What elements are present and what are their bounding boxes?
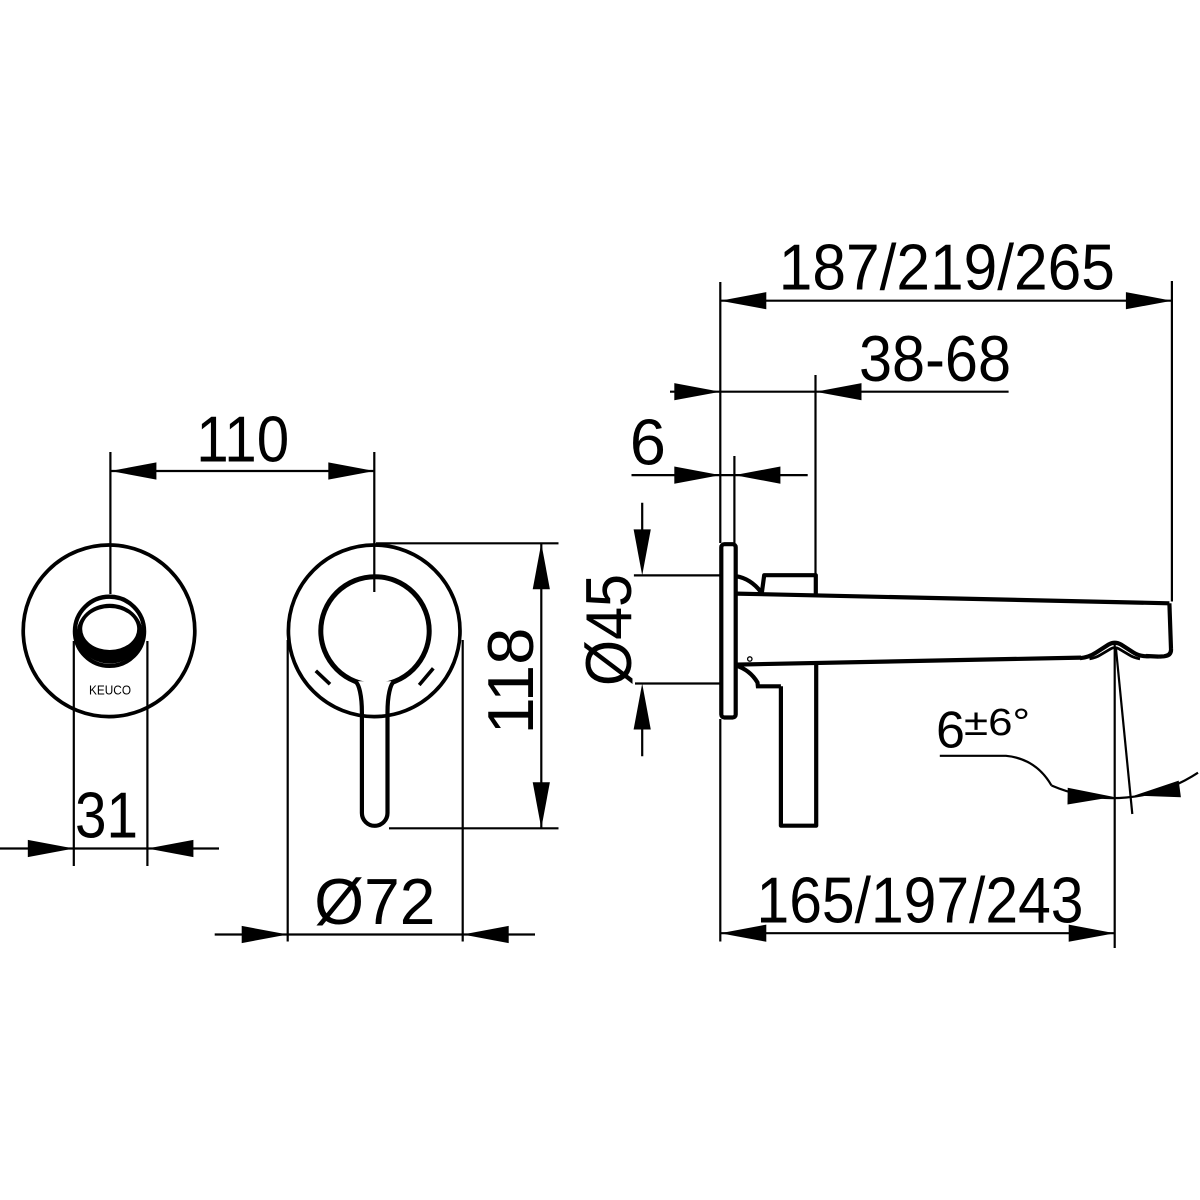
svg-text:165/197/243: 165/197/243 — [757, 864, 1084, 937]
svg-text:110: 110 — [196, 403, 289, 476]
svg-text:31: 31 — [75, 779, 138, 852]
svg-text:6: 6 — [936, 702, 965, 760]
svg-text:Ø45: Ø45 — [572, 574, 645, 686]
svg-text:KEUCO: KEUCO — [89, 684, 131, 698]
svg-text:118: 118 — [474, 628, 547, 735]
svg-text:187/219/265: 187/219/265 — [779, 231, 1115, 304]
svg-text:6: 6 — [630, 406, 666, 479]
svg-text:38-68: 38-68 — [859, 322, 1011, 395]
svg-text:Ø72: Ø72 — [314, 865, 435, 938]
svg-text:±6°: ±6° — [964, 702, 1030, 744]
